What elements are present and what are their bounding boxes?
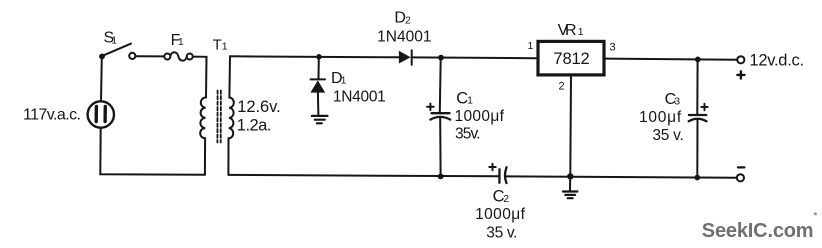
- output minus sign: [738, 166, 745, 168]
- diode D1 anode lead: [317, 93, 320, 116]
- capacitor C1 plus sign: [427, 104, 434, 111]
- switch S1 contact dot: [99, 54, 105, 60]
- svg-text:100μf: 100μf: [639, 109, 682, 126]
- svg-text:2: 2: [405, 14, 411, 26]
- svg-text:117v.a.c.: 117v.a.c.: [23, 107, 81, 124]
- svg-text:1: 1: [341, 74, 347, 86]
- source plug bar right: [103, 107, 107, 122]
- capacitor C1 bottom lead: [439, 117, 441, 176]
- output terminal minus circle: [737, 174, 744, 181]
- bottom rail: secondary to C2 plate: [228, 175, 499, 176]
- diode D1 cathode bar: [311, 78, 325, 80]
- svg-text:12v.d.c.: 12v.d.c.: [749, 52, 804, 70]
- svg-text:3: 3: [674, 96, 680, 108]
- svg-text:1: 1: [111, 34, 117, 46]
- svg-text:1: 1: [578, 26, 584, 38]
- svg-text:1000μf: 1000μf: [455, 108, 505, 125]
- svg-text:35 v.: 35 v.: [652, 127, 683, 144]
- svg-text:3: 3: [610, 42, 616, 54]
- svg-text:2: 2: [559, 80, 565, 92]
- wire: fuse to transformer primary corner: [193, 57, 207, 98]
- svg-text:VR: VR: [558, 22, 577, 39]
- capacitor C3 plus sign: [701, 104, 707, 110]
- wire: secondary top lead to top rail: [228, 56, 231, 97]
- capacitor C1 curved plate: [430, 117, 450, 120]
- svg-text:2: 2: [503, 193, 509, 205]
- top rail: D2 to VR1 pin1: [412, 56, 537, 59]
- diode D1 triangle: [310, 80, 325, 92]
- svg-text:35v.: 35v.: [455, 126, 481, 143]
- svg-text:1N4001: 1N4001: [333, 89, 386, 106]
- node: C1 top junction: [438, 55, 444, 61]
- svg-text:1: 1: [222, 41, 228, 53]
- capacitor C2 straight plate: [498, 169, 500, 182]
- node: C1 bottom junction: [438, 174, 444, 180]
- scan speck: [814, 212, 817, 215]
- capacitor C2 plus sign: [489, 164, 495, 170]
- source plug bar left: [94, 107, 98, 122]
- output terminal plus circle: [737, 56, 744, 63]
- fuse F1 left terminal: [164, 54, 170, 60]
- ground symbol under VR1 pin2: [569, 176, 571, 191]
- transformer T1 core lines: [216, 91, 218, 143]
- svg-text:1.2a.: 1.2a.: [237, 117, 272, 135]
- regulator VR1 pin2 lead: [569, 76, 572, 176]
- diode D1 lead from rail: [318, 57, 320, 79]
- svg-text:1: 1: [178, 36, 184, 48]
- capacitor C3 top plate: [689, 114, 706, 116]
- switch S1 blade arm: [103, 44, 132, 56]
- svg-text:12.6v.: 12.6v.: [237, 98, 280, 116]
- wire: primary bottom lead: [204, 138, 206, 175]
- capacitor C3 bottom lead: [696, 119, 698, 178]
- capacitor C1 top plate: [432, 112, 450, 114]
- svg-text:T: T: [213, 37, 222, 54]
- wire: source top to switch dot: [100, 57, 103, 101]
- wire: switch to fuse: [136, 55, 164, 57]
- svg-text:1: 1: [467, 94, 473, 106]
- svg-text:SeekIC.com: SeekIC.com: [702, 220, 814, 242]
- svg-text:1N4001: 1N4001: [377, 29, 431, 46]
- 117 v.a.c. source circle: [88, 101, 114, 127]
- node: D1 tap junction: [316, 54, 322, 60]
- capacitor C1 top lead: [439, 58, 442, 113]
- fuse F1 element: [170, 52, 186, 60]
- node: VR1 pin2 / ground junction: [567, 173, 573, 179]
- ground symbol under D1: [312, 115, 328, 117]
- output plus sign: [737, 71, 744, 78]
- transformer T1 secondary winding: [229, 98, 234, 139]
- bottom rail: C2 to output terminal: [506, 176, 737, 177]
- capacitor C3 curved plate: [689, 119, 707, 122]
- svg-text:35 v.: 35 v.: [486, 225, 517, 242]
- diode D2 cathode bar: [411, 50, 413, 65]
- wire: secondary bottom lead: [227, 138, 229, 175]
- svg-text:1000μf: 1000μf: [475, 206, 525, 223]
- node: C3 bottom junction: [694, 175, 700, 181]
- top rail: secondary to D2 anode: [230, 56, 400, 57]
- capacitor C3 top lead: [696, 59, 698, 114]
- fuse F1 right terminal: [187, 54, 193, 60]
- diode D2 triangle: [399, 51, 411, 64]
- switch S1 open terminal: [129, 53, 135, 59]
- svg-text:1: 1: [528, 40, 534, 52]
- top rail: VR1 pin3 to output: [606, 59, 738, 60]
- capacitor C2 curved plate: [505, 167, 507, 183]
- node: C3 top junction: [695, 57, 701, 63]
- regulator VR1 box: [538, 41, 604, 75]
- svg-text:7812: 7812: [553, 50, 589, 68]
- transformer T1 primary winding: [200, 97, 206, 138]
- wire: source bottom to bottom-left rail: [100, 128, 205, 175]
